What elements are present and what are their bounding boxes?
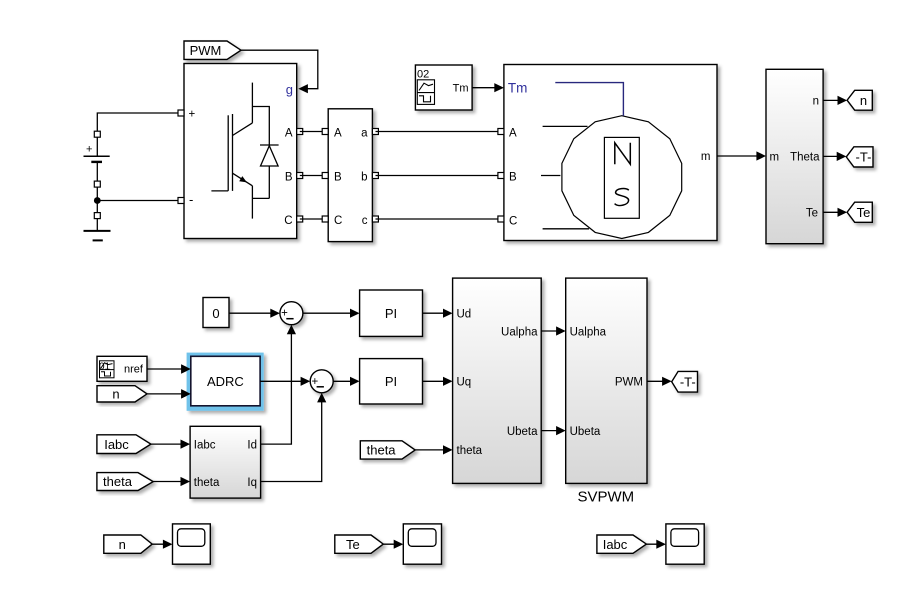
stator stub A [543, 125, 588, 127]
svg-text:nref: nref [124, 364, 144, 376]
PI controller 1 [360, 290, 423, 336]
svg-text:+: + [189, 109, 196, 121]
svg-text:n: n [112, 387, 119, 402]
svg-text:Iabc: Iabc [194, 439, 216, 451]
svg-text:0: 0 [212, 306, 219, 321]
svg-text:m: m [701, 151, 711, 163]
svg-text:Ud: Ud [457, 309, 472, 321]
svg-text:-T-: -T- [856, 150, 872, 165]
From tag theta [97, 473, 153, 491]
svg-text:theta: theta [457, 445, 483, 457]
svg-text:g: g [286, 82, 293, 97]
PMSM port B [498, 173, 504, 179]
DC voltage source (battery) [84, 137, 110, 181]
universal bridge (inverter) block [184, 64, 297, 239]
wire m to selector [717, 155, 764, 157]
wire Id to sum1 [261, 334, 292, 445]
PMSM machine block [504, 65, 717, 241]
signal builder nref [97, 356, 147, 381]
meas port a [372, 129, 378, 135]
svg-text:n: n [860, 93, 867, 108]
bridge port A [297, 129, 303, 135]
From tag theta 2 [360, 441, 415, 459]
From tag Iabc [97, 435, 151, 454]
svg-text:B: B [285, 172, 293, 184]
wire Iq to sum2 [261, 402, 322, 482]
meas port B [322, 173, 328, 179]
svg-text:C: C [334, 215, 342, 227]
ADRC block (selected, cyan highlight) [187, 353, 264, 411]
wire Te [823, 211, 845, 213]
svg-text:m: m [770, 151, 780, 163]
svg-text:Theta: Theta [790, 151, 820, 163]
svg-text:+: + [311, 376, 318, 388]
wire Tm [472, 87, 501, 89]
svg-text:Uq: Uq [457, 377, 472, 389]
ground port [94, 213, 100, 219]
meas port b [372, 173, 378, 179]
battery bottom port [94, 181, 100, 187]
svg-text:Ualpha: Ualpha [570, 326, 607, 338]
svg-text:B: B [334, 172, 342, 184]
wire theta to dq [153, 481, 188, 483]
blue Tm line [555, 83, 623, 116]
junction node [94, 197, 101, 204]
svg-text:B: B [509, 172, 517, 184]
Goto tag -T- (Theta) [846, 147, 873, 167]
constant 0 [203, 298, 229, 328]
svg-text:C: C [509, 215, 517, 227]
svg-text:A: A [285, 128, 293, 140]
svg-text:-: - [189, 192, 193, 207]
PMSM port C [498, 216, 504, 222]
wire Theta [823, 155, 844, 157]
svg-text:PWM: PWM [615, 377, 643, 389]
svg-text:PWM: PWM [190, 43, 222, 58]
stator stub B [541, 175, 560, 177]
wire Ubeta [541, 430, 563, 432]
wire B bridge to meas [300, 175, 325, 177]
svg-text:theta: theta [367, 443, 397, 458]
wire Te to scope [383, 543, 401, 545]
Goto tag n [847, 90, 872, 110]
bridge port B [297, 173, 303, 179]
PMSM port A [498, 129, 504, 135]
svg-text:A: A [334, 128, 342, 140]
svg-text:A: A [509, 128, 517, 140]
PMSM rotor circle [562, 116, 682, 239]
abc to dq transform block [190, 426, 261, 498]
wire sum1 to PI1 [303, 312, 357, 314]
wire battery+ to bridge + [97, 113, 178, 131]
scope Te [403, 524, 441, 564]
Goto tag -T- (PWM) [672, 371, 698, 392]
IGBT with anti-parallel diode icon [211, 83, 278, 219]
wire 0 to sum1 [229, 312, 278, 314]
svg-text:Iabc: Iabc [104, 437, 129, 452]
battery top port [94, 131, 100, 137]
svg-text:Ubeta: Ubeta [570, 426, 601, 438]
wire PWM to goto [647, 380, 669, 382]
stator stub C [543, 228, 590, 230]
svg-text:Ualpha: Ualpha [501, 326, 538, 338]
svg-text:ADRC: ADRC [207, 374, 244, 389]
svg-text:n: n [813, 96, 819, 108]
signal builder block 02 (Tm source) [415, 65, 472, 110]
bridge port + [178, 110, 184, 116]
sum junction 1 [280, 302, 303, 325]
three-phase measurement block [328, 109, 372, 242]
svg-text:02: 02 [417, 69, 429, 81]
svg-text:PI: PI [385, 306, 397, 321]
svg-text:Te: Te [346, 537, 360, 552]
wire sum2 to PI2 [333, 380, 357, 382]
svg-text:c: c [362, 215, 368, 227]
letter S [615, 189, 629, 206]
svg-text:PI: PI [385, 374, 397, 389]
svg-text:+: + [281, 308, 288, 320]
svg-text:Id: Id [247, 439, 257, 451]
wire n [823, 99, 845, 101]
wire theta to transform [415, 449, 450, 451]
bridge port C [297, 216, 303, 222]
svg-text:Te: Te [857, 205, 871, 220]
ground symbol [84, 219, 111, 241]
From tag n (scope) [104, 535, 152, 553]
svg-text:+: + [86, 144, 92, 156]
measurement demux subsystem [766, 69, 823, 243]
wire c to PMSM C [376, 218, 501, 220]
wire n to scope [152, 543, 170, 545]
meas port A [322, 129, 328, 135]
svg-text:n: n [119, 537, 126, 552]
wire PWM to g [241, 50, 318, 88]
meas port C [322, 216, 328, 222]
From tag n [97, 386, 147, 402]
wire C bridge to meas [300, 218, 325, 220]
svg-text:theta: theta [194, 477, 220, 489]
scope n [173, 524, 211, 564]
wire A bridge to meas [300, 131, 325, 133]
Goto tag Te [847, 202, 872, 222]
SVPWM block [566, 278, 647, 483]
svg-text:a: a [361, 128, 368, 140]
svg-text:SVPWM: SVPWM [577, 489, 634, 506]
wire a to PMSM A [376, 131, 501, 133]
wire ADRC to sum2 [260, 380, 308, 382]
PI controller 2 [360, 359, 423, 404]
svg-text:Ubeta: Ubeta [507, 426, 538, 438]
wire Iabc to dq [151, 443, 188, 445]
svg-text:-T-: -T- [680, 374, 696, 389]
magnet rectangle [604, 137, 639, 218]
wire Iabc to scope [646, 543, 663, 545]
wire battery- to bridge - [97, 200, 178, 202]
bridge port - [178, 198, 184, 204]
svg-text:Tm: Tm [453, 83, 469, 95]
From tag Iabc (scope) [597, 535, 647, 553]
wire n to ADRC [147, 393, 188, 395]
svg-text:Iabc: Iabc [603, 537, 628, 552]
wire b to PMSM B [376, 175, 501, 177]
sum junction 2 [310, 370, 333, 393]
svg-text:01: 01 [99, 362, 111, 373]
svg-text:Tm: Tm [508, 81, 528, 96]
svg-text:b: b [361, 172, 367, 184]
svg-text:Iq: Iq [247, 477, 257, 489]
From tag PWM [184, 41, 241, 59]
wire nref to ADRC [147, 368, 188, 370]
wire PI2 to Uq [423, 380, 451, 382]
wire Ualpha [541, 330, 563, 332]
wire PI1 to Ud [423, 312, 451, 314]
scope Iabc [666, 524, 704, 564]
From tag Te (scope) [335, 535, 384, 553]
meas port c [372, 216, 378, 222]
letter N [615, 143, 631, 164]
svg-text:C: C [284, 215, 292, 227]
svg-text:theta: theta [103, 474, 133, 489]
svg-text:Te: Te [806, 208, 818, 220]
dq to alpha-beta transform block [453, 278, 542, 483]
